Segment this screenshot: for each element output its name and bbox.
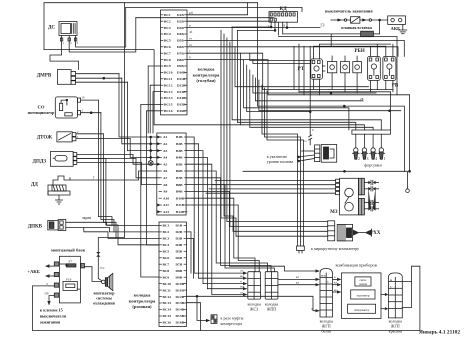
wires to ZhSZ strip arrows [194,272,247,297]
svg-text:РВ: РВ [392,84,399,89]
spark plugs pair 1 [364,180,378,191]
svg-text:A1: A1 [163,135,168,139]
svg-text:BC10: BC10 [163,282,172,286]
diagnostic connector KD [269,12,298,23]
sensor DS box [59,22,77,45]
wire red strip bottom right [402,281,411,307]
wire DD right [70,171,159,180]
relay RBN [368,44,381,92]
svg-text:уровня топлива: уровня топлива [267,159,294,164]
sensor DMRV box [57,70,75,85]
svg-text:белая: белая [322,329,332,334]
svg-text:BC2: BC2 [164,19,171,23]
diode module 3 [353,56,362,93]
svg-text:BC1: BC1 [164,13,171,17]
svg-text:BC3: BC3 [164,26,171,30]
connector white strip [320,269,332,318]
wire relay top rail 2 [314,46,386,54]
svg-text:BC2: BC2 [163,230,170,234]
fan motor [102,273,113,290]
svg-text:1: 1 [384,157,386,161]
wire h 86.7 [235,47,369,87]
svg-text:3: 3 [367,157,369,161]
svg-text:BC7: BC7 [163,262,170,266]
svg-text:АКБ: АКБ [391,26,401,31]
svg-text:BC14: BC14 [163,308,172,312]
svg-text:F7: F7 [69,260,73,264]
svg-text:жч: жч [239,274,244,278]
svg-text:D14B: D14B [176,308,185,312]
wire MZ feeds [206,181,336,194]
sensor DPDZ box [50,152,76,167]
ignition module MZ [336,178,365,215]
wire relay control from bundle [250,53,311,60]
svg-text:A11: A11 [163,203,169,207]
svg-text:г: г [189,49,191,53]
svg-text:BC12: BC12 [164,83,173,87]
svg-text:КД: КД [280,7,288,12]
svg-text:BC10: BC10 [164,71,173,75]
svg-text:B8B: B8B [176,183,183,187]
block2 B-pin drop bundle [187,137,320,295]
svg-text:B2B: B2B [176,142,183,146]
svg-text:B4B: B4B [176,156,183,160]
wire long right vertical [409,95,411,172]
wire DPKV pin1 [66,222,159,225]
svg-text:A10: A10 [163,196,169,200]
svg-text:колодка: колодка [134,293,151,298]
svg-text:4: 4 [375,157,377,161]
svg-text:СО: СО [38,105,45,110]
svg-text:D5B: D5B [177,39,184,43]
svg-text:б: б [327,281,329,284]
svg-text:A5: A5 [163,162,168,166]
svg-text:BC4: BC4 [164,32,171,36]
svg-text:к реле муфты: к реле муфты [221,315,244,320]
svg-text:ДС: ДС [48,26,55,31]
svg-text:BC7: BC7 [164,51,171,55]
wire h 107.8 [244,60,349,130]
relay RV [383,44,396,92]
svg-text:ЖПП: ЖПП [267,307,276,312]
svg-text:(розовая): (розовая) [132,304,152,309]
svg-text:сл: сл [240,290,243,294]
svg-text:B12B: B12B [176,210,185,214]
svg-text:BC5: BC5 [164,39,171,43]
wire fuel gauge arrows [297,151,315,163]
svg-text:красная: красная [389,329,402,334]
wires ZhPP to white strip [278,278,320,287]
injector 1 [378,148,385,159]
svg-text:форсунки: форсунки [364,163,382,168]
svg-text:B6B: B6B [176,169,183,173]
svg-text:1: 1 [63,41,65,45]
wire top frame around DS [44,3,257,50]
wire DMRV pins right [76,73,119,75]
svg-text:спидометр: спидометр [354,308,370,312]
wire MB pin4 to ignition keyterm [47,296,54,306]
svg-text:выключателя: выключателя [40,314,67,319]
svg-text:BC14: BC14 [164,96,173,100]
svg-text:BC9: BC9 [163,275,170,279]
svg-text:потенциометр: потенциометр [28,110,55,115]
svg-text:D11B: D11B [176,288,185,292]
wire block3 BC13 down to bottom wire [187,303,201,331]
wire h 106.1 [257,106,404,171]
svg-text:BC6: BC6 [163,256,170,260]
wire +AKB arrows [45,264,54,278]
svg-text:ДПДЗ: ДПДЗ [33,160,47,165]
wires block1 lower-left [148,66,160,133]
wire generator line [187,27,320,29]
wire left group A verticals [98,100,159,245]
svg-text:+АКБ: +АКБ [28,269,40,274]
svg-text:сл: сл [240,269,243,273]
sensor DTOZh box [57,132,76,142]
wire DTOZh pins right [76,133,104,135]
wire KD pin drops [270,22,272,27]
svg-text:Январь 4.1 21102: Январь 4.1 21102 [419,330,460,336]
wire DPKV pin2 [66,227,159,232]
svg-text:гч: гч [189,36,192,40]
wire DS pin2 down [69,18,136,52]
svg-text:B11B: B11B [176,203,185,207]
battery AKB [388,16,406,25]
svg-text:D6B: D6B [177,45,184,49]
svg-text:С: С [305,139,308,143]
svg-text:BC11: BC11 [164,77,173,81]
svg-text:колодка: колодка [198,67,215,72]
wire block1 row8 to bottom rail2 [187,60,410,95]
fusible link [331,20,379,46]
svg-text:F19: F19 [66,278,72,282]
wire trip computer feeds [262,85,304,246]
svg-text:к клемме 15: к клемме 15 [40,308,63,313]
svg-text:BC3: BC3 [163,237,170,241]
svg-text:Б: Б [284,23,286,27]
svg-text:D13B: D13B [176,301,185,305]
svg-text:охлаждения: охлаждения [93,301,115,306]
svg-text:BC8: BC8 [164,58,171,62]
svg-text:D8B: D8B [177,58,184,62]
wire MZ common y171 [243,170,410,172]
svg-text:контроллера: контроллера [193,72,220,77]
svg-text:РТ: РТ [298,67,305,72]
wire fuel pump feed upper [309,46,311,95]
svg-text:экран: экран [82,216,91,220]
connector in fan wire [96,252,100,254]
svg-text:D4B: D4B [177,32,184,36]
svg-text:в: в [189,24,191,28]
svg-text:зажигания: зажигания [40,320,61,325]
wire to AC clutch relay [196,295,217,323]
wire from block1 row1 to top frame [187,3,248,15]
svg-text:монтажный блок: монтажный блок [51,248,86,253]
relay RT [311,54,325,95]
idle control RXX [328,221,372,241]
wire fuel pump feed with break [309,95,312,145]
spark plugs pair 2 [364,187,378,211]
svg-text:A3: A3 [163,149,168,153]
wire cluster tacho arrow [381,293,388,310]
connector strip ZhPP [265,272,278,299]
wire fan feed vertical [98,3,124,281]
svg-text:D3B: D3B [177,26,184,30]
fuel pump module [315,145,337,163]
shield wire DPKV [84,227,159,238]
svg-text:ДМРВ: ДМРВ [37,74,52,79]
wire injector drops [232,27,381,148]
injector 2 [352,148,359,159]
wire h 93 [253,75,376,93]
wire relay top rail 0 [279,37,398,95]
svg-text:BC13: BC13 [164,90,173,94]
svg-text:кр: кр [334,288,337,292]
wire MB pin3 stub [49,285,54,287]
wires white strip to cluster [332,278,341,294]
svg-text:B7B: B7B [176,176,183,180]
svg-text:ДПКВ: ДПКВ [28,225,43,230]
left harness bundle verticals [119,74,159,185]
svg-text:D6B: D6B [176,256,183,260]
svg-text:BC15: BC15 [164,103,173,107]
svg-text:B5B: B5B [176,162,183,166]
wire block1 row2 to KD [187,20,269,22]
svg-text:D3B: D3B [176,237,183,241]
wire fuel rail feed [389,92,391,130]
svg-text:D1B: D1B [177,13,184,17]
svg-text:2: 2 [358,157,360,161]
svg-text:контроллера: контроллера [129,298,156,303]
svg-text:D2B: D2B [177,19,184,23]
svg-text:ч: ч [240,279,242,283]
svg-text:РБН: РБН [355,49,365,54]
svg-text:D1B: D1B [176,224,183,228]
shield drain bus with ground symbol [148,136,153,165]
svg-text:D7B: D7B [176,262,183,266]
svg-text:2: 2 [82,109,84,113]
svg-text:2: 2 [70,41,72,45]
svg-text:B3B: B3B [176,149,183,153]
svg-text:A12: A12 [163,210,169,214]
svg-text:(голубая): (голубая) [196,78,216,83]
svg-text:B9B: B9B [176,190,183,194]
svg-text:BC11: BC11 [163,288,172,292]
wire MB long bottom wire [32,266,420,330]
svg-text:чб: чб [189,30,193,34]
connector block2 body [157,133,186,215]
svg-text:BC9: BC9 [164,64,171,68]
wire switch left stub [331,19,344,21]
svg-text:З: З [46,282,48,286]
connector block1 (blue) body [161,10,188,115]
svg-text:с: с [390,285,392,289]
svg-text:Г: Г [93,176,95,180]
svg-text:BC5: BC5 [163,250,170,254]
svg-text:комбинация приборов: комбинация приборов [336,263,377,268]
wire DPDZ pins right [77,154,133,156]
svg-text:кл: кл [296,281,299,285]
svg-text:D5B: D5B [176,250,183,254]
wire DS pin1 to DMRV [50,44,79,70]
trip computer connector [297,246,305,253]
svg-text:A7: A7 [163,176,168,180]
svg-text:2: 2 [77,130,79,134]
wire DS frame bottom [44,50,241,125]
svg-text:A6: A6 [163,169,168,173]
svg-text:D9B: D9B [177,64,184,68]
svg-text:BC1: BC1 [163,224,170,228]
block row labels [159,13,187,325]
fuel rail bar [352,130,391,134]
svg-text:2Б: 2Б [360,97,364,101]
svg-text:гкр: гкр [240,285,245,289]
injector 4 [370,148,377,159]
svg-text:С: С [312,128,315,132]
wire block1 row5 long [187,40,404,56]
svg-text:A8: A8 [163,183,168,187]
svg-text:ГВ: ГВ [45,292,49,296]
wire fuse to KD bus [283,33,332,35]
svg-text:D2B: D2B [176,230,183,234]
wire block3 BC2 to strip bundle [187,232,192,273]
wire relay top rail 1 [320,44,391,54]
svg-text:РХХ: РХХ [371,231,381,236]
svg-text:ЖСЗ: ЖСЗ [250,307,258,312]
block2 pin arrows [157,136,160,139]
svg-text:б: б [189,56,191,60]
wire DS pin2 top line to KD pin [136,17,274,19]
connector strip ZhSZ [248,272,261,299]
svg-text:лампа: лампа [359,282,368,286]
svg-text:A2: A2 [163,142,168,146]
wire RT area frame verticals [294,44,304,95]
svg-text:гч: гч [189,43,192,47]
wire CO pin 1b right [81,99,99,101]
svg-text:плавкая вставка: плавкая вставка [341,25,372,30]
ground AKB [399,24,407,33]
injector 3 [361,148,368,159]
svg-text:МЗ: МЗ [330,210,338,215]
svg-text:выключатель зажигания: выключатель зажигания [325,9,373,14]
svg-text:BC6: BC6 [164,45,171,49]
svg-text:3: 3 [77,41,79,45]
svg-text:D9B: D9B [176,275,183,279]
ground point circle [406,172,410,192]
svg-text:ГЗ: ГЗ [321,24,325,28]
svg-text:к/б: к/б [189,11,193,15]
svg-text:BC8: BC8 [163,269,170,273]
ignition switch [338,17,372,24]
sensor DPKV box [48,220,66,231]
svg-text:мтзн: мтзн [321,275,327,278]
svg-text:тахометр: тахометр [356,294,369,298]
svg-text:б/ч: б/ч [100,266,105,270]
svg-text:D15B: D15B [176,314,185,318]
sensor DD knock sensor [48,176,70,204]
wire top line 2 to KD [126,7,302,11]
wire h 100.8 [255,78,363,101]
wire CO pin 2 right [81,112,101,114]
svg-text:кл: кл [296,275,299,279]
svg-text:1б: 1б [82,96,86,100]
svg-text:кл: кл [334,281,337,285]
connector red strip [388,273,402,318]
diode module 1 [328,56,337,90]
svg-text:в: в [334,275,336,279]
svg-text:BC15: BC15 [163,314,172,318]
wire h 110.7 [259,80,401,111]
svg-text:D16B: D16B [176,321,185,325]
diode module 2 [341,56,350,92]
svg-text:компрессора: компрессора [221,321,243,326]
wires block3 left feeds [141,104,161,277]
svg-text:D4B: D4B [176,243,183,247]
wire block3 BC3 to strip bundle [187,238,194,278]
wire h 111.6 [247,65,311,112]
svg-text:ДТОЖ: ДТОЖ [37,136,52,141]
svg-text:BC16: BC16 [163,321,172,325]
wire MB to fan [81,264,85,268]
connector block3 (pink) body [159,222,187,326]
sensor CO potentiometer box [55,97,80,118]
wire d to white strip bottom [187,296,321,312]
svg-text:A4: A4 [163,156,168,160]
svg-text:D8B: D8B [176,269,183,273]
svg-text:D7B: D7B [177,51,184,55]
mounting block MB [54,256,80,303]
svg-text:D12B: D12B [176,295,185,299]
instrument cluster box [342,273,382,319]
svg-text:BC12: BC12 [163,295,172,299]
svg-text:BC13: BC13 [163,301,172,305]
wire switch to battery [372,19,388,21]
svg-text:D10B: D10B [176,282,185,286]
svg-text:B10B: B10B [176,196,185,200]
svg-text:BC16: BC16 [164,109,173,113]
center bundle verticals [232,3,275,106]
svg-text:B1B: B1B [176,135,183,139]
svg-text:к маршрутному компьютеру: к маршрутному компьютеру [311,246,359,251]
svg-text:ДД: ДД [31,183,38,188]
svg-text:A9: A9 [163,190,168,194]
wire RXX feeds [221,30,328,236]
wire block1 row7 to bottom rail [187,53,393,89]
svg-text:BC4: BC4 [163,243,170,247]
wire block1 row6 long [187,47,398,57]
wire DS pin3 down [76,7,126,47]
